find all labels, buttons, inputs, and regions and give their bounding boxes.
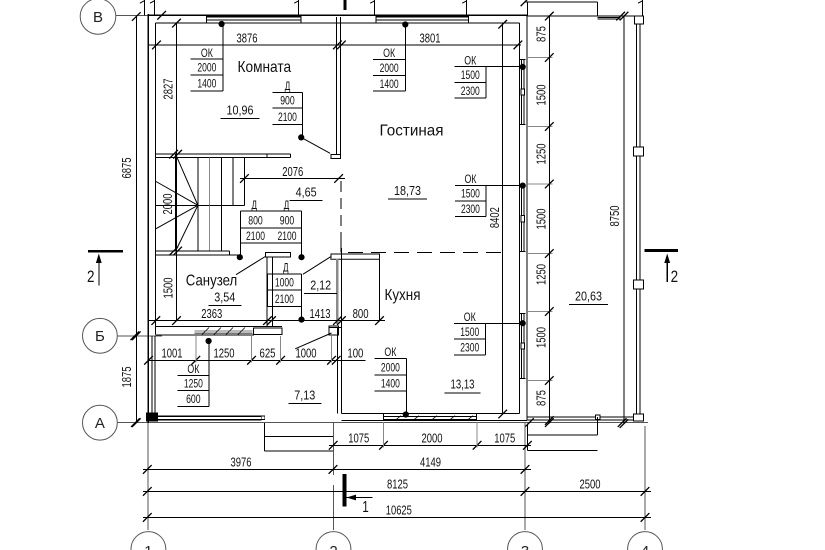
svg-text:2000: 2000 <box>161 193 175 214</box>
svg-text:4149: 4149 <box>420 455 441 470</box>
svg-text:1500: 1500 <box>461 188 480 200</box>
svg-text:Д: Д <box>285 81 291 93</box>
svg-text:2500: 2500 <box>580 477 601 492</box>
svg-text:1875: 1875 <box>120 366 134 387</box>
svg-text:2076: 2076 <box>282 164 303 179</box>
svg-text:2363: 2363 <box>201 306 222 321</box>
svg-text:1400: 1400 <box>197 79 216 91</box>
svg-text:2300: 2300 <box>461 204 480 216</box>
svg-text:ОК: ОК <box>383 48 395 60</box>
svg-text:100: 100 <box>347 346 363 361</box>
svg-text:2300: 2300 <box>461 86 480 98</box>
svg-text:10625: 10625 <box>386 503 412 518</box>
svg-text:1000: 1000 <box>275 278 294 290</box>
svg-text:1500: 1500 <box>460 327 479 339</box>
svg-text:А: А <box>95 415 105 432</box>
svg-text:Б: Б <box>95 328 105 345</box>
svg-text:Гостиная: Гостиная <box>380 122 444 139</box>
svg-text:3: 3 <box>521 543 529 550</box>
svg-text:2100: 2100 <box>278 112 297 124</box>
svg-text:875: 875 <box>534 26 548 42</box>
svg-text:900: 900 <box>280 215 295 227</box>
svg-text:3876: 3876 <box>237 30 258 45</box>
svg-text:ОК: ОК <box>384 347 396 359</box>
svg-text:1250: 1250 <box>534 264 548 285</box>
svg-text:1400: 1400 <box>381 379 400 391</box>
svg-text:1250: 1250 <box>534 143 548 164</box>
svg-text:1: 1 <box>362 499 369 516</box>
svg-text:Санузел: Санузел <box>186 273 238 290</box>
svg-text:6875: 6875 <box>120 157 134 178</box>
svg-text:3,54: 3,54 <box>214 290 235 305</box>
svg-text:1500: 1500 <box>461 70 480 82</box>
svg-text:2100: 2100 <box>246 231 265 243</box>
svg-text:600: 600 <box>186 394 201 406</box>
svg-text:ОК: ОК <box>464 174 476 186</box>
svg-text:18,73: 18,73 <box>394 183 421 198</box>
svg-text:2000: 2000 <box>422 431 443 446</box>
svg-text:3801: 3801 <box>420 30 441 45</box>
svg-text:В: В <box>93 9 103 26</box>
svg-text:7,13: 7,13 <box>294 387 315 402</box>
svg-text:2,12: 2,12 <box>310 278 331 293</box>
svg-text:1000: 1000 <box>296 346 317 361</box>
svg-text:ОК: ОК <box>464 55 476 67</box>
svg-text:1500: 1500 <box>162 277 176 298</box>
svg-text:800: 800 <box>248 215 263 227</box>
svg-text:Д: Д <box>251 200 257 212</box>
svg-text:625: 625 <box>260 346 276 361</box>
svg-text:1400: 1400 <box>380 79 399 91</box>
svg-text:Кухня: Кухня <box>385 287 421 304</box>
svg-text:2000: 2000 <box>381 363 400 375</box>
svg-text:1413: 1413 <box>310 306 331 321</box>
svg-text:10,96: 10,96 <box>227 103 254 118</box>
svg-text:2827: 2827 <box>162 78 176 99</box>
svg-text:ОК: ОК <box>187 364 199 376</box>
svg-text:2000: 2000 <box>197 62 216 74</box>
svg-text:ОК: ОК <box>201 48 213 60</box>
svg-text:8125: 8125 <box>387 477 408 492</box>
svg-text:8402: 8402 <box>488 207 502 228</box>
svg-text:1075: 1075 <box>348 431 369 446</box>
svg-text:13,13: 13,13 <box>451 377 475 392</box>
svg-text:900: 900 <box>280 96 295 108</box>
svg-text:2300: 2300 <box>460 343 479 355</box>
svg-text:875: 875 <box>534 390 548 406</box>
svg-text:2100: 2100 <box>278 231 297 243</box>
svg-text:Комната: Комната <box>238 59 292 76</box>
svg-text:1500: 1500 <box>534 327 548 348</box>
svg-text:1001: 1001 <box>162 346 183 361</box>
svg-text:2: 2 <box>329 543 337 550</box>
svg-text:Д: Д <box>284 200 290 212</box>
svg-text:4: 4 <box>641 543 649 550</box>
svg-text:20,63: 20,63 <box>575 289 602 304</box>
svg-text:1: 1 <box>144 543 152 550</box>
svg-text:1250: 1250 <box>184 378 203 390</box>
svg-text:8750: 8750 <box>608 205 622 226</box>
svg-text:1500: 1500 <box>534 84 548 105</box>
svg-text:3976: 3976 <box>231 455 252 470</box>
svg-text:2100: 2100 <box>275 294 294 306</box>
svg-text:2: 2 <box>87 267 95 286</box>
svg-text:2: 2 <box>671 267 679 286</box>
svg-text:1250: 1250 <box>214 346 235 361</box>
svg-text:1500: 1500 <box>534 208 548 229</box>
svg-text:Д: Д <box>283 263 289 275</box>
svg-text:800: 800 <box>353 306 369 321</box>
svg-text:ОК: ОК <box>464 312 476 324</box>
svg-text:2000: 2000 <box>380 63 399 75</box>
svg-text:1075: 1075 <box>494 431 515 446</box>
svg-text:4,65: 4,65 <box>296 184 317 199</box>
